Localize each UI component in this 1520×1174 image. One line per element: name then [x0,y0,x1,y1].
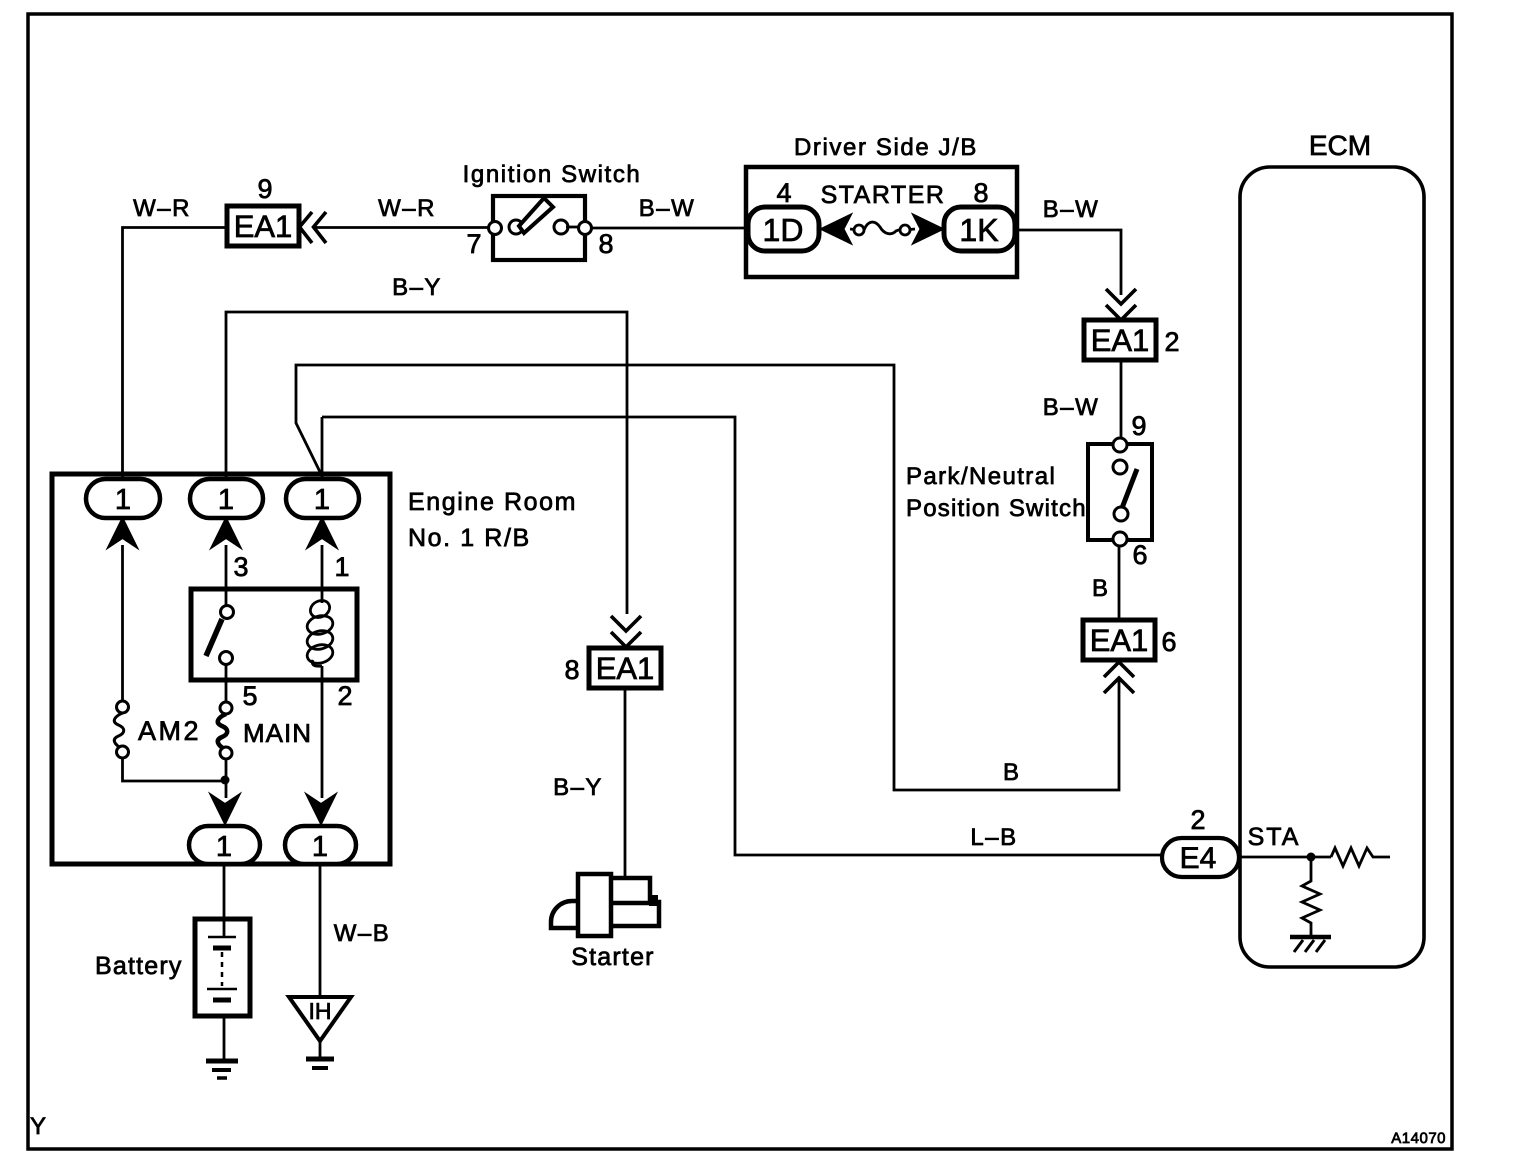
wire coil to pin2 arrow [321,666,324,798]
P/N switch contacts [1113,438,1127,474]
fuse MAIN [218,702,232,759]
svg-text:B–Y: B–Y [553,774,603,801]
svg-text:L–B: L–B [970,824,1017,851]
svg-text:8: 8 [564,655,579,685]
starter M [551,874,659,936]
wire E4 to node [1240,856,1331,859]
node STA junction dot [1307,853,1316,862]
wire bottom oval1 to battery [223,864,226,937]
svg-text:8: 8 [598,229,613,259]
wire B from EA1(6) down-left to relay coil branch [296,365,1119,790]
node 9 label [257,174,272,204]
fuse AM2 [114,701,128,758]
wire AM2 to junction [123,758,226,781]
solid up arrow under oval3 [309,519,336,547]
svg-text:W–R: W–R [133,195,191,222]
Engine Room No.1 R/B box [52,474,390,864]
svg-text:Park/Neutral: Park/Neutral [906,463,1056,490]
relay coil [305,597,335,666]
svg-text:W–B: W–B [334,920,391,947]
wire L-B from coil node to ECM E4 [322,417,1162,855]
svg-text:4: 4 [776,178,791,208]
wire oval2 to relay [225,545,228,606]
J/B internal wire circles and squiggle [850,222,915,235]
svg-text:STA: STA [1248,823,1301,851]
battery [195,919,250,1016]
svg-text:Battery: Battery [95,952,183,980]
svg-text:MAIN: MAIN [243,718,312,748]
svg-text:W–R: W–R [378,195,436,222]
earth ground under battery [206,1061,238,1078]
wire EA1(2) to park/neutral switch [1120,360,1123,440]
resistor vertical [1302,861,1320,935]
wire oval1 to fuse AM2 [121,545,124,701]
wire from oval3 up [321,417,324,479]
connector E4 oval [1162,838,1239,877]
connector EA1 (9) box [227,206,299,246]
svg-text:Ignition Switch: Ignition Switch [463,161,642,188]
svg-text:EA1: EA1 [1091,323,1150,358]
svg-text:1D: 1D [763,212,804,248]
svg-text:2: 2 [1190,805,1205,835]
wire EA1(9) to ignition switch [315,226,490,229]
P/N switch lever [1122,469,1137,508]
svg-text:Driver Side J/B: Driver Side J/B [794,134,978,161]
svg-text:3: 3 [233,552,248,582]
solid up arrow under oval2 [213,519,240,547]
svg-text:STARTER: STARTER [821,181,946,209]
connector oval 1 top-mid [190,479,263,518]
svg-text:6: 6 [1132,540,1147,570]
svg-text:No. 1 R/B: No. 1 R/B [408,524,531,552]
Driver Side J/B box [746,167,1017,277]
svg-text:5: 5 [242,681,257,711]
svg-text:A14070: A14070 [1391,1130,1446,1147]
double chevron left at EA1(9) [300,212,327,243]
svg-text:EA1: EA1 [234,209,293,244]
svg-text:2: 2 [1164,327,1179,357]
connector EA1 (2) box [1084,320,1156,360]
relay ST box [191,589,357,680]
double chevron down into EA1(2) [1106,289,1136,320]
svg-text:IH: IH [309,998,332,1024]
relay switch contacts [221,606,234,619]
svg-text:1: 1 [314,484,330,516]
svg-text:AM2: AM2 [138,716,201,746]
wire P/N to EA1(6) [1118,546,1121,620]
svg-text:6: 6 [1161,627,1176,657]
solid up arrow under oval1 [109,519,136,547]
svg-text:B–W: B–W [639,195,696,222]
svg-text:B–Y: B–Y [392,274,442,301]
svg-text:B–W: B–W [1043,196,1100,223]
ignition switch lever [519,198,553,233]
junction dot [221,776,230,785]
ground triangle IH [289,997,351,1041]
ECM box [1240,167,1424,967]
J/B right solid arrow [914,216,942,243]
svg-text:9: 9 [257,174,272,204]
svg-text:1K: 1K [959,212,998,248]
svg-text:8: 8 [973,178,988,208]
svg-text:B: B [1003,759,1019,786]
connector oval bottom-right [285,826,356,864]
wire MAIN to junction [225,759,228,798]
svg-text:Y: Y [30,1113,46,1140]
wire ignition to J/B [591,227,750,230]
svg-text:Position Switch: Position Switch [906,495,1087,522]
double chevron down into EA1(8) [611,616,641,647]
svg-text:B–W: B–W [1043,394,1100,421]
connector 1K oval [944,207,1015,251]
svg-text:9: 9 [1131,411,1146,441]
connector oval 1 top-left [86,479,160,518]
J/B left solid arrow [822,216,850,243]
svg-text:1: 1 [216,831,232,863]
svg-text:E4: E4 [1180,842,1217,875]
svg-text:7: 7 [466,229,481,259]
wire bottom oval2 to IH ground [319,864,322,997]
svg-text:1: 1 [218,484,234,516]
wire B-Y from oval2 to EA1(8) [226,312,627,614]
wire battery to ground [223,1016,226,1060]
wire W-R from EA1(9) to Engine Room R/B [123,228,228,480]
connector oval 1 top-right [286,479,359,518]
double chevron up below EA1(6) [1104,662,1134,693]
svg-text:EA1: EA1 [596,651,655,686]
svg-text:Engine Room: Engine Room [408,488,577,516]
solid down arrow above bottom oval1 [212,796,239,824]
wire contact3 to contact4 [566,226,579,229]
svg-text:1: 1 [115,484,131,516]
park/neutral switch SW2 box [1088,444,1152,540]
svg-text:1: 1 [334,552,349,582]
svg-text:Starter: Starter [571,943,654,971]
wire oval3 to coil [321,545,324,603]
chassis ground [1290,937,1331,952]
svg-text:ECM: ECM [1309,130,1371,161]
solid down arrow above bottom oval2 [308,796,335,824]
svg-text:EA1: EA1 [1090,623,1149,658]
connector EA1 (6) box [1083,620,1155,660]
resistor horizontal [1331,848,1390,866]
connector EA1 (8) box [589,648,661,688]
ignition switch contacts [489,220,592,235]
connector oval bottom-left [189,826,260,864]
wire relay to fuse MAIN [225,664,228,702]
svg-text:B: B [1092,575,1108,602]
wire 1K to EA1(2) [1015,230,1121,295]
connector 1D oval [748,207,819,251]
wire EA1(8) to starter [624,688,627,878]
svg-text:2: 2 [337,681,352,711]
svg-text:1: 1 [312,831,328,863]
ignition switch SW1 box [493,196,585,260]
